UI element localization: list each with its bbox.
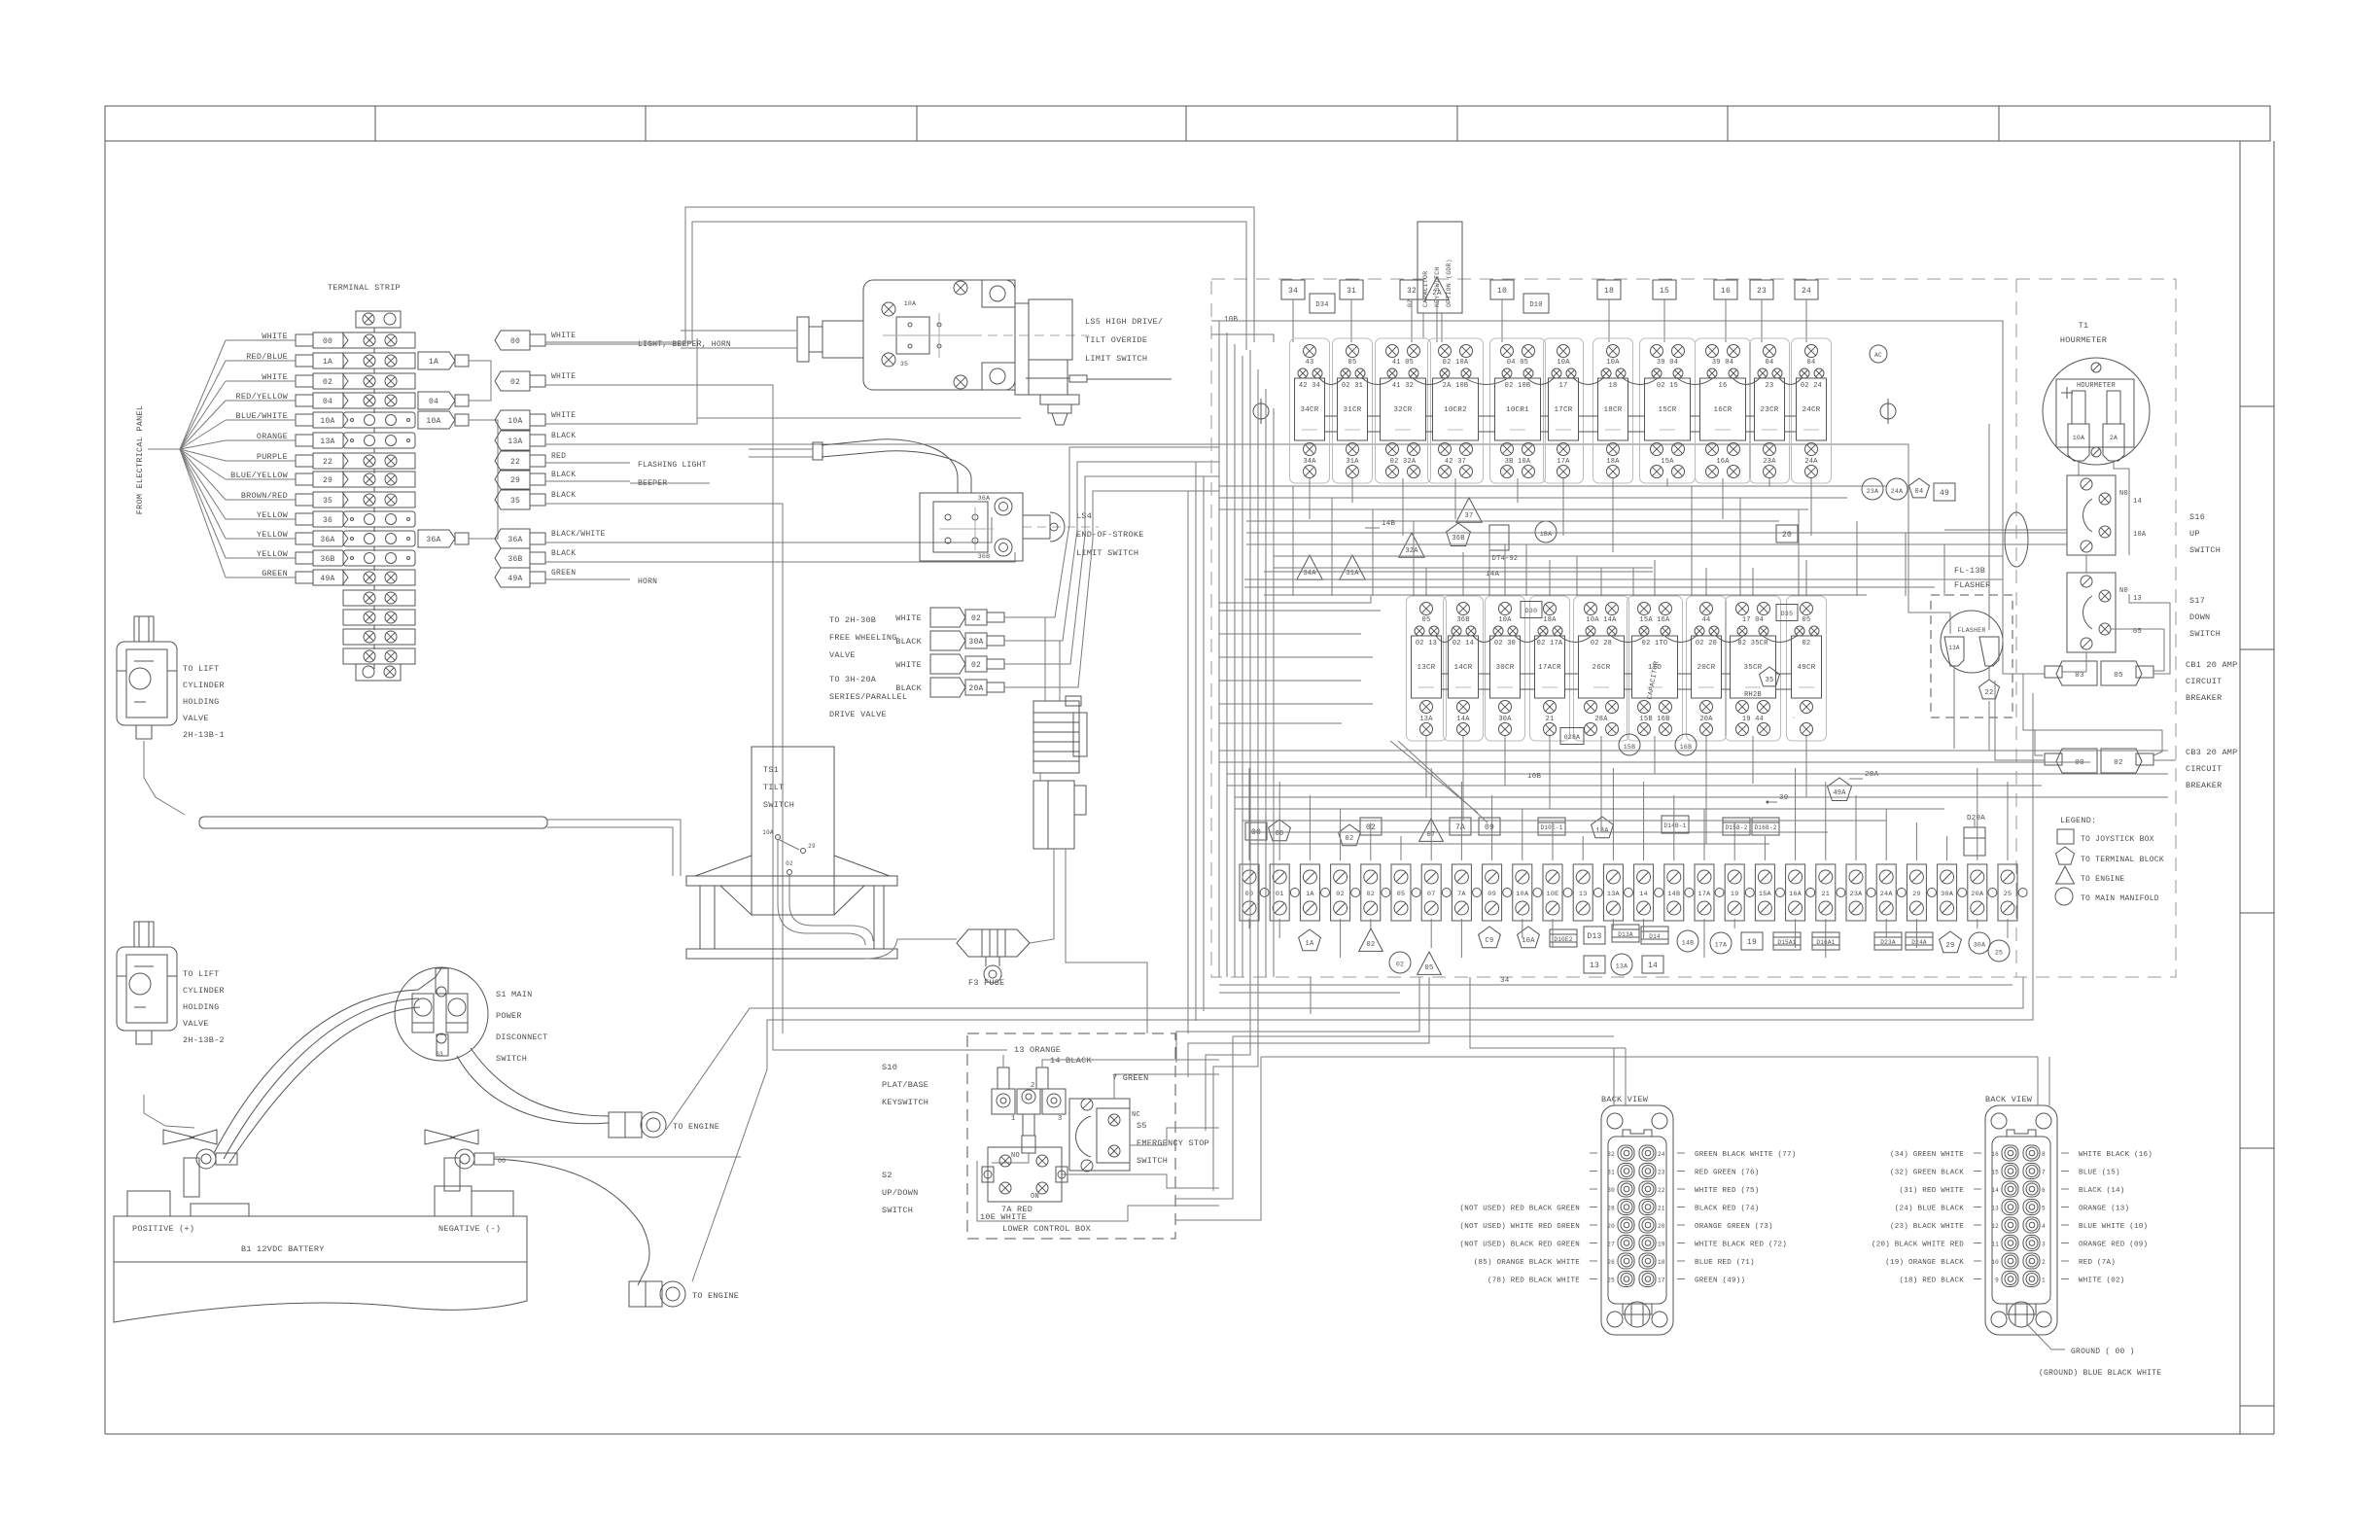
svg-text:(85) ORANGE BLACK WHITE: (85) ORANGE BLACK WHITE xyxy=(1474,1259,1581,1267)
svg-text:13A: 13A xyxy=(507,437,522,446)
svg-text:TO LIFT: TO LIFT xyxy=(183,664,219,674)
wire xyxy=(1233,1035,1614,1037)
svg-text:02 10A: 02 10A xyxy=(1443,359,1469,367)
svg-text:1A: 1A xyxy=(1306,891,1314,898)
svg-text:32A: 32A xyxy=(1405,547,1418,555)
wire xyxy=(1462,736,1464,749)
wire xyxy=(1244,586,1935,588)
wire xyxy=(1219,610,1381,612)
svg-text:SWITCH: SWITCH xyxy=(2189,629,2221,639)
svg-text:13: 13 xyxy=(1579,891,1588,898)
svg-text:16B: 16B xyxy=(1680,744,1692,751)
wire xyxy=(1761,299,1763,342)
svg-text:02 35CR: 02 35CR xyxy=(1737,640,1768,647)
wire xyxy=(1246,520,1779,522)
svg-text:BREAKER: BREAKER xyxy=(2186,781,2222,790)
wire xyxy=(1462,552,1464,596)
relay 10CR2 xyxy=(1428,338,1484,483)
cable oval xyxy=(2005,512,2028,567)
svg-text:ORANGE (13): ORANGE (13) xyxy=(2079,1206,2129,1213)
svg-text:UP: UP xyxy=(2189,529,2200,539)
wire xyxy=(1248,768,1250,860)
wire xyxy=(1062,1174,1219,1188)
svg-text:49A: 49A xyxy=(1833,789,1846,797)
box D35 xyxy=(1776,605,1798,621)
svg-text:(GROUND) BLUE BLACK WHITE: (GROUND) BLUE BLACK WHITE xyxy=(2039,1369,2161,1378)
svg-text:(NOT USED) WHITE RED GREEN: (NOT USED) WHITE RED GREEN xyxy=(1459,1223,1580,1231)
wire xyxy=(1885,919,1887,938)
svg-text:13: 13 xyxy=(1590,962,1599,970)
wire xyxy=(1825,782,1827,860)
svg-text:10A: 10A xyxy=(320,417,334,426)
box D30 xyxy=(1521,602,1542,618)
box 028A xyxy=(1560,728,1584,745)
wire xyxy=(1219,596,1371,603)
wire xyxy=(1795,919,1797,948)
svg-text:04 05: 04 05 xyxy=(1507,359,1528,367)
wire xyxy=(2002,379,2004,642)
wire xyxy=(1004,462,1219,641)
wire xyxy=(1219,703,1373,705)
svg-text:15: 15 xyxy=(1991,1170,1999,1176)
svg-text:3B 10A: 3B 10A xyxy=(1505,458,1531,466)
relay 13CR xyxy=(1407,596,1447,741)
svg-text:22: 22 xyxy=(1985,689,1994,697)
svg-text:LIMIT SWITCH: LIMIT SWITCH xyxy=(1085,354,1147,364)
wire 00b xyxy=(630,222,1219,342)
wire xyxy=(1752,568,1754,596)
circuit breaker CB1 xyxy=(2045,666,2062,678)
svg-text:22: 22 xyxy=(1658,1187,1665,1194)
svg-text:04: 04 xyxy=(1766,359,1774,367)
svg-text:7: 7 xyxy=(2042,1170,2046,1176)
relay rails bank2 xyxy=(1442,673,1449,675)
svg-text:FLASHER: FLASHER xyxy=(1954,580,1990,590)
net box D34 xyxy=(1310,294,1335,313)
svg-text:20: 20 xyxy=(1782,531,1792,540)
wire S1 to engine xyxy=(457,1056,609,1124)
wire xyxy=(1273,408,1275,977)
wire xyxy=(547,820,681,876)
switch S2 xyxy=(988,1147,1062,1202)
svg-text:(31) RED WHITE: (31) RED WHITE xyxy=(1899,1187,1964,1195)
svg-text:31A: 31A xyxy=(1346,570,1359,577)
svg-text:18A: 18A xyxy=(1606,458,1620,466)
svg-text:35: 35 xyxy=(900,361,908,367)
symbols below bottom strip xyxy=(1299,929,1321,951)
wire xyxy=(2007,782,2009,860)
wire battery+ to S1 xyxy=(214,968,441,1153)
wire xyxy=(1213,977,1258,1191)
svg-text:S10: S10 xyxy=(882,1063,897,1072)
relay 32CR xyxy=(1376,338,1431,483)
svg-text:2: 2 xyxy=(2042,1259,2046,1266)
wire xyxy=(1004,447,1219,617)
circle 1BA xyxy=(1535,521,1557,542)
wire xyxy=(1462,741,1464,821)
wire xyxy=(1752,741,1754,762)
wire xyxy=(2062,671,2086,673)
svg-text:WHITE: WHITE xyxy=(895,660,922,670)
svg-text:23: 23 xyxy=(1766,382,1774,390)
AC circle xyxy=(1870,345,1887,363)
wire xyxy=(2114,461,2129,515)
pentagon 35 xyxy=(1760,667,1780,686)
svg-text:36A: 36A xyxy=(426,536,440,544)
svg-text:SWITCH: SWITCH xyxy=(496,1054,527,1064)
svg-text:D10: D10 xyxy=(1529,301,1542,309)
svg-text:F3 FUSE: F3 FUSE xyxy=(968,978,1004,988)
svg-text:C9: C9 xyxy=(1486,937,1494,945)
wire 29 xyxy=(630,482,710,484)
svg-text:03: 03 xyxy=(436,1051,443,1058)
wire xyxy=(1219,750,2168,752)
limit switch LS4 xyxy=(920,493,1023,561)
svg-text:10B: 10B xyxy=(1224,316,1239,324)
svg-text:02: 02 xyxy=(971,614,981,623)
svg-text:15: 15 xyxy=(1660,287,1669,296)
svg-text:HORN: HORN xyxy=(638,577,657,586)
wire xyxy=(1219,222,1246,350)
svg-text:1BA: 1BA xyxy=(1540,531,1552,538)
svg-text:AC: AC xyxy=(1874,352,1882,359)
svg-text:FREE WHEELING: FREE WHEELING xyxy=(829,633,897,643)
svg-text:3: 3 xyxy=(1058,1115,1062,1123)
svg-text:01: 01 xyxy=(1276,891,1284,898)
svg-text:30CR: 30CR xyxy=(1495,664,1514,672)
svg-text:10A: 10A xyxy=(1606,359,1620,367)
wire xyxy=(1663,299,1665,342)
svg-text:BLACK RED (74): BLACK RED (74) xyxy=(1695,1206,1760,1213)
relay 34CR xyxy=(1290,338,1330,483)
wire xyxy=(1219,485,1886,487)
svg-text:02: 02 xyxy=(1396,962,1404,968)
svg-text:39 04: 39 04 xyxy=(1712,359,1733,367)
relay 18CR xyxy=(1593,338,1633,483)
svg-text:36: 36 xyxy=(323,516,332,525)
up switch S16 xyxy=(2067,475,2116,555)
svg-text:TO ENGINE: TO ENGINE xyxy=(673,1122,719,1132)
svg-text:21: 21 xyxy=(1658,1206,1665,1212)
wire xyxy=(1522,919,1523,938)
wire xyxy=(1130,1128,1219,1145)
svg-text:CB1 20 AMP: CB1 20 AMP xyxy=(2186,660,2238,670)
svg-text:11: 11 xyxy=(1991,1242,1999,1248)
wire xyxy=(1582,836,1584,860)
svg-text:13A: 13A xyxy=(1616,963,1627,970)
wire xyxy=(1600,741,1602,832)
svg-text:TO TERMINAL BLOCK: TO TERMINAL BLOCK xyxy=(2081,856,2164,864)
keyswitch S10 xyxy=(997,1067,1009,1089)
svg-text:32: 32 xyxy=(1607,1151,1615,1158)
net labels above bank1 xyxy=(1281,280,1305,299)
svg-text:35CR: 35CR xyxy=(1743,664,1762,672)
wire arcs bank2 xyxy=(1436,636,1453,643)
svg-text:17CR: 17CR xyxy=(1554,406,1572,414)
svg-text:LOWER CONTROL BOX: LOWER CONTROL BOX xyxy=(1002,1224,1091,1234)
wire xyxy=(1703,919,1705,958)
svg-text:20A: 20A xyxy=(1971,891,1984,898)
wire xyxy=(1643,782,1645,860)
wire xyxy=(1488,533,1490,596)
svg-text:22: 22 xyxy=(323,458,332,467)
svg-text:07: 07 xyxy=(1427,891,1436,898)
lug to engine upper xyxy=(609,1112,642,1137)
svg-text:28: 28 xyxy=(1607,1206,1615,1212)
fuse F3 xyxy=(897,938,957,940)
svg-text:(19) ORANGE BLACK: (19) ORANGE BLACK xyxy=(1885,1259,1964,1267)
svg-text:02: 02 xyxy=(971,661,981,670)
svg-text:18: 18 xyxy=(1658,1259,1665,1266)
relay 26CR xyxy=(1574,596,1629,741)
wire xyxy=(1768,478,1770,486)
svg-text:02 14: 02 14 xyxy=(1452,640,1474,647)
svg-text:15CR: 15CR xyxy=(1658,406,1676,414)
wire xyxy=(1004,491,1219,687)
lug to engine lower xyxy=(629,1281,662,1307)
circle 24A xyxy=(1886,478,1907,500)
svg-text:16A: 16A xyxy=(1716,458,1730,466)
svg-text:N0: N0 xyxy=(2119,587,2128,595)
svg-text:14: 14 xyxy=(1991,1187,1999,1194)
svg-text:34: 34 xyxy=(1288,287,1298,296)
wire xyxy=(1856,521,1858,596)
wire xyxy=(1600,736,1602,772)
svg-text:6: 6 xyxy=(2042,1187,2046,1194)
wire xyxy=(1292,486,1294,596)
wire xyxy=(1244,578,2003,580)
wire 36A margin xyxy=(1944,529,2067,531)
svg-text:(78) RED BLACK WHITE: (78) RED BLACK WHITE xyxy=(1487,1277,1580,1285)
svg-text:42 37: 42 37 xyxy=(1445,458,1466,466)
wire xyxy=(977,1161,1219,1221)
svg-text:14: 14 xyxy=(2133,498,2142,506)
relay rails bank1 xyxy=(1325,415,1338,417)
svg-text:13: 13 xyxy=(2133,595,2142,603)
down switch S17 xyxy=(2067,573,2116,652)
wire xyxy=(1370,919,1372,928)
svg-text:BLUE (15): BLUE (15) xyxy=(2079,1170,2120,1177)
svg-text:10A: 10A xyxy=(507,417,522,426)
wire xyxy=(1977,768,1978,860)
svg-text:NC: NC xyxy=(1132,1111,1140,1119)
wire xyxy=(1219,761,2090,763)
svg-text:02 30: 02 30 xyxy=(1494,640,1516,647)
wire xyxy=(1400,836,1402,860)
pentagon 49A xyxy=(1828,778,1852,801)
svg-text:16: 16 xyxy=(1721,287,1731,296)
wire xyxy=(1203,476,1205,1011)
valve connector 2H-13B-2 xyxy=(134,922,154,947)
svg-text:HOLDING: HOLDING xyxy=(183,1002,219,1012)
svg-text:36A: 36A xyxy=(507,536,522,544)
svg-text:04: 04 xyxy=(1915,488,1924,496)
svg-text:GREEN (49)): GREEN (49)) xyxy=(1695,1277,1745,1285)
wire xyxy=(1066,849,1147,1033)
svg-text:8: 8 xyxy=(2042,1151,2046,1158)
wire xyxy=(1350,299,1352,342)
svg-text:UP/DOWN: UP/DOWN xyxy=(882,1188,918,1198)
wire xyxy=(1390,741,1478,813)
wire xyxy=(1504,544,1506,596)
back view connector J2 xyxy=(1985,1105,2057,1335)
wire xyxy=(1654,736,1656,772)
wire xyxy=(1425,568,1427,596)
svg-text:17A: 17A xyxy=(1715,942,1727,949)
wire xyxy=(1059,641,1061,701)
svg-text:SWITCH: SWITCH xyxy=(1137,1156,1168,1166)
svg-text:30: 30 xyxy=(1607,1187,1615,1194)
wire xyxy=(1491,795,1493,860)
svg-text:TO JOYSTICK BOX: TO JOYSTICK BOX xyxy=(2081,835,2154,844)
wire 02 white xyxy=(545,385,1007,1050)
svg-text:02: 02 xyxy=(510,378,520,387)
svg-text:18: 18 xyxy=(1609,382,1618,390)
svg-text:10A 14A: 10A 14A xyxy=(1586,616,1617,624)
circle 23A xyxy=(1862,478,1883,500)
wire xyxy=(1175,1057,1261,1220)
svg-text:34A: 34A xyxy=(1303,458,1316,466)
svg-text:02 32A: 02 32A xyxy=(1390,458,1417,466)
svg-text:ORANGE RED (09): ORANGE RED (09) xyxy=(2079,1242,2148,1249)
svg-text:42 34: 42 34 xyxy=(1299,382,1320,390)
svg-text:FLASHER: FLASHER xyxy=(1957,627,1985,634)
wire xyxy=(2007,919,2009,938)
svg-text:7A: 7A xyxy=(1457,891,1466,898)
wire xyxy=(469,420,498,539)
wire xyxy=(1235,808,1944,810)
wire xyxy=(1460,782,1462,860)
svg-text:TILT: TILT xyxy=(763,783,784,792)
svg-text:49CR: 49CR xyxy=(1797,664,1815,672)
wire xyxy=(1654,560,1656,596)
svg-text:S16: S16 xyxy=(2189,512,2205,522)
svg-text:36B: 36B xyxy=(507,555,522,564)
svg-text:7A: 7A xyxy=(1455,823,1465,832)
svg-text:TO 3H-20A: TO 3H-20A xyxy=(829,675,877,684)
svg-text:23: 23 xyxy=(1757,287,1767,296)
wire xyxy=(1552,822,1554,860)
svg-text:WHITE: WHITE xyxy=(551,411,576,420)
relay 1TO xyxy=(1627,596,1683,741)
svg-text:WHITE: WHITE xyxy=(895,613,922,623)
svg-text:10E: 10E xyxy=(1547,891,1559,898)
svg-text:15B 16B: 15B 16B xyxy=(1639,716,1669,723)
wire xyxy=(1002,1055,1004,1067)
wire xyxy=(1340,919,1342,958)
svg-text:13: 13 xyxy=(1991,1206,1999,1212)
svg-text:(32) GREEN BLACK: (32) GREEN BLACK xyxy=(1890,1170,1964,1177)
svg-text:02 24: 02 24 xyxy=(1801,382,1822,390)
wire xyxy=(1218,321,1220,977)
wire xyxy=(1691,486,1693,596)
wire xyxy=(1004,476,1219,664)
wire xyxy=(1705,741,1707,844)
svg-text:31CR: 31CR xyxy=(1343,406,1361,414)
svg-text:BLACK (14): BLACK (14) xyxy=(2079,1187,2125,1195)
svg-text:CYLINDER: CYLINDER xyxy=(183,986,225,996)
svg-text:28A: 28A xyxy=(1865,771,1879,779)
wire xyxy=(2111,629,2164,671)
svg-text:10A: 10A xyxy=(2133,531,2147,539)
wire xyxy=(1504,736,1506,784)
pentagon 04 xyxy=(1909,478,1930,498)
svg-text:028A: 028A xyxy=(1564,734,1581,741)
svg-text:17A: 17A xyxy=(1698,891,1712,898)
svg-text:18CR: 18CR xyxy=(1603,406,1622,414)
wire xyxy=(1885,809,1887,860)
svg-text:02: 02 xyxy=(323,378,332,387)
wire arcs bank1 xyxy=(1319,378,1343,385)
svg-text:29: 29 xyxy=(1912,891,1921,898)
wire xyxy=(1402,478,1404,536)
svg-text:26CR: 26CR xyxy=(1592,664,1610,672)
limit switch LS5 xyxy=(863,280,1015,390)
svg-text:13A: 13A xyxy=(1595,827,1609,835)
relay 30CR xyxy=(1486,596,1525,741)
svg-text:44: 44 xyxy=(1702,616,1711,624)
svg-text:23A: 23A xyxy=(1867,488,1878,495)
svg-text:GROUND ( 00 ): GROUND ( 00 ) xyxy=(2071,1347,2135,1356)
svg-text:22: 22 xyxy=(510,458,520,467)
wire xyxy=(1454,478,1456,519)
svg-text:49: 49 xyxy=(1940,489,1949,498)
svg-text:D14B-1: D14B-1 xyxy=(1663,822,1686,829)
emergency stop switch S5 xyxy=(1069,1099,1130,1171)
svg-text:HOURMETER: HOURMETER xyxy=(2060,335,2107,345)
box 20 xyxy=(1776,525,1798,542)
svg-text:13A: 13A xyxy=(320,437,334,446)
svg-text:WHITE (02): WHITE (02) xyxy=(2079,1277,2125,1285)
relay 35CR xyxy=(1726,596,1781,741)
wire xyxy=(1195,462,1197,1021)
svg-text:02 28: 02 28 xyxy=(1591,640,1612,647)
wire xyxy=(1278,919,1280,938)
wire xyxy=(1114,1074,1219,1099)
svg-text:TO LIFT: TO LIFT xyxy=(183,969,219,979)
svg-text:31: 31 xyxy=(1607,1170,1615,1176)
svg-text:32: 32 xyxy=(1407,287,1417,296)
svg-text:NEGATIVE (-): NEGATIVE (-) xyxy=(438,1224,501,1234)
svg-text:DISCONNECT: DISCONNECT xyxy=(496,1032,548,1042)
relay 23CR xyxy=(1750,338,1790,483)
svg-text:32CR: 32CR xyxy=(1393,406,1412,414)
svg-text:20: 20 xyxy=(1658,1223,1665,1230)
svg-text:24: 24 xyxy=(1802,287,1811,296)
svg-text:18A: 18A xyxy=(1543,616,1557,624)
svg-text:02: 02 xyxy=(1366,891,1375,898)
wire xyxy=(1227,773,2168,775)
svg-text:WHITE: WHITE xyxy=(551,372,576,381)
svg-text:BREAKER: BREAKER xyxy=(2186,693,2222,703)
wire xyxy=(1654,741,1656,774)
svg-text:D35: D35 xyxy=(1781,611,1793,617)
svg-text:T1: T1 xyxy=(2079,321,2089,331)
wire xyxy=(1977,919,1978,928)
svg-text:13CR: 13CR xyxy=(1417,664,1435,672)
wire xyxy=(1219,497,1847,499)
wire xyxy=(1219,633,1361,635)
wire xyxy=(1248,919,1250,928)
svg-text:SWITCH: SWITCH xyxy=(882,1206,913,1215)
svg-text:41 32: 41 32 xyxy=(1392,382,1414,390)
svg-text:41 05: 41 05 xyxy=(1392,359,1414,367)
svg-text:ON: ON xyxy=(1031,1193,1039,1201)
svg-text:03: 03 xyxy=(2075,672,2084,680)
wire xyxy=(1943,544,1945,596)
wire xyxy=(1855,795,1857,860)
relay panel dashed box xyxy=(1211,279,2176,977)
